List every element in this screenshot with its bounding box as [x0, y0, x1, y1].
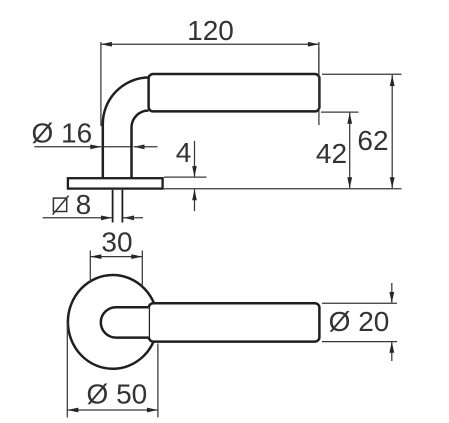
svg-text:Ø 50: Ø 50: [87, 378, 148, 409]
svg-text:42: 42: [316, 138, 347, 169]
svg-text:Ø 16: Ø 16: [31, 118, 92, 149]
svg-text:62: 62: [357, 125, 388, 156]
svg-text:120: 120: [187, 15, 234, 46]
svg-text:8: 8: [76, 189, 92, 220]
svg-text:4: 4: [176, 137, 192, 168]
svg-text:Ø 20: Ø 20: [329, 306, 390, 337]
svg-text:30: 30: [101, 226, 132, 257]
